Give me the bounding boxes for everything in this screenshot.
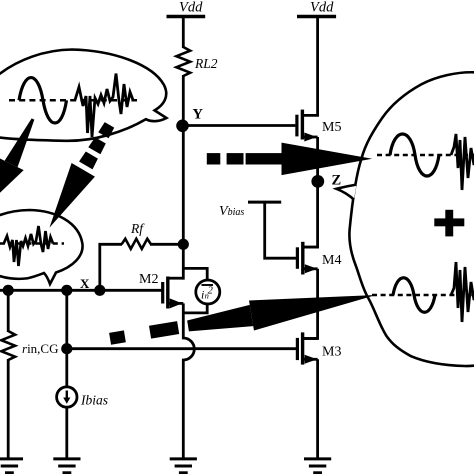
svg-text:M5: M5 [322, 120, 341, 135]
wire rail2: M4 source to M3 drain [303, 269, 318, 339]
wire rail2: M3 source to ground [316, 359, 319, 459]
wire rail1: Y down to M2 drain [182, 126, 185, 280]
wire rail1 lower with hop over M3 gate wire [183, 303, 194, 459]
svg-text:M4: M4 [322, 253, 341, 268]
wire rin,CG lower [7, 359, 10, 459]
wire Rf left segment + down to X [100, 244, 122, 290]
wire M3 gate row [67, 347, 296, 350]
node X [94, 285, 105, 296]
node Y [176, 120, 189, 133]
resistor RL2 [176, 47, 190, 76]
wire input row (node X) [0, 289, 163, 292]
ground G2 [53, 459, 80, 473]
Vbias bar [248, 201, 281, 204]
waveform E-lower dashed baseline [372, 294, 474, 297]
svg-text:Vdd: Vdd [179, 0, 203, 16]
speech bubble B2 (with tail pointing to input wire) [0, 210, 83, 284]
wire Ibias branch lower [65, 407, 68, 459]
speech bubble B1 (with tail pointing to node Y) [0, 50, 166, 141]
waveform E-lower sine [393, 278, 435, 313]
waveform B1 sine [19, 78, 67, 123]
current source Ibias [57, 387, 77, 407]
output ellipse E tail (points to node Z) [337, 185, 357, 200]
node at rin,CG tap [3, 285, 14, 296]
output ellipse E [349, 72, 474, 366]
arrow A1 (solid, to bubble B2) [0, 113, 46, 204]
svg-text:Rf: Rf [130, 221, 145, 236]
waveform E-upper sine [390, 134, 439, 176]
svg-text:Y: Y [193, 107, 204, 123]
svg-text:M2: M2 [139, 272, 158, 287]
svg-text:Vdd: Vdd [310, 0, 334, 16]
power rail Vdd1 bar [167, 15, 206, 18]
waveform B2 dashed baseline [0, 242, 64, 244]
wire Vbias to M4 gate [265, 202, 296, 258]
arrow A4 (dashed, to E-lower waveform) [108, 280, 379, 354]
transistor M4 [297, 242, 317, 275]
ground G4 [304, 459, 331, 473]
transistor M5 [297, 110, 318, 142]
wire rail2: M5 source to M4 drain [303, 137, 318, 247]
transistor M3 [297, 332, 317, 364]
waveform E-upper dashed baseline [377, 154, 474, 157]
wire Rf right segment [150, 243, 183, 246]
node at Ibias tap [61, 285, 72, 296]
waveform E-upper noise burst [451, 134, 474, 190]
arrow A3 (to E-upper waveform) [207, 143, 372, 176]
waveform B1 dashed baseline [9, 99, 137, 102]
svg-text:2: 2 [208, 286, 214, 297]
wire node Y to M5 gate [183, 124, 295, 127]
svg-text:Z: Z [332, 173, 342, 189]
waveform B2 noise burst [4, 226, 53, 266]
node Rf junction [178, 239, 189, 250]
svg-text:Ibias: Ibias [80, 393, 108, 408]
ground G3 [170, 459, 197, 473]
node Z [311, 175, 324, 188]
transistor M2 [163, 277, 184, 309]
svg-text:M3: M3 [322, 345, 341, 360]
svg-text:Vbias: Vbias [219, 204, 244, 219]
ground G1 [0, 459, 23, 473]
plus sign [434, 210, 464, 237]
node M3 gate tap [61, 343, 72, 354]
arrow A2 (dashed, to bubble B2) [38, 118, 121, 234]
wire Vdd1 stem [182, 17, 185, 49]
waveform B1 noise burst [75, 74, 133, 138]
wire rin,CG upper [7, 290, 10, 332]
power rail Vdd2 bar [297, 15, 336, 18]
wire RL2 to node Y [182, 75, 185, 126]
waveform E-lower noise burst [451, 262, 474, 322]
noise source in2 [183, 268, 220, 313]
svg-text:RL2: RL2 [194, 56, 218, 71]
svg-text:rin,CG: rin,CG [22, 341, 58, 356]
wire Ibias branch upper [65, 290, 68, 387]
svg-text:X: X [80, 276, 90, 291]
wire Vdd2 stem to M5 drain [302, 17, 317, 116]
resistor Rf [122, 239, 151, 249]
resistor rin,CG [1, 331, 15, 360]
